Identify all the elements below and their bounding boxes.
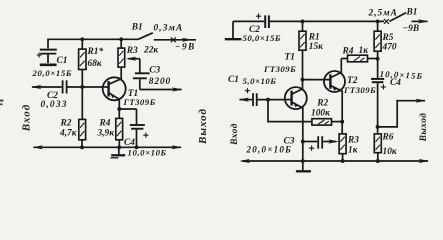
svg-text:С1: С1 [57, 56, 68, 66]
svg-text:ГТ309Б: ГТ309Б [343, 85, 376, 95]
svg-text:С1: С1 [228, 75, 239, 85]
svg-text:4,7к: 4,7к [59, 129, 77, 139]
transistor T2 [324, 59, 345, 122]
wire: right output line with arrow [378, 99, 426, 127]
node: R2 bottom junction [80, 145, 84, 149]
node: R6 bottom junction [376, 159, 380, 163]
svg-text:Вход: Вход [229, 123, 240, 146]
resistor R2 (left base bias) [79, 87, 86, 147]
node: R4-R5 junction [376, 57, 380, 61]
resistor R1 [79, 39, 86, 87]
wire: left circuit bottom common rail with end arrows [33, 145, 183, 149]
resistor R1 (right) [299, 21, 306, 79]
measuring point x on right rail [384, 19, 389, 24]
svg-text:50,0×15Б: 50,0×15Б [243, 33, 281, 43]
svg-text:10к: 10к [383, 147, 397, 157]
node: rail-R3 junction [119, 37, 123, 41]
svg-text:Выход: Выход [418, 113, 429, 143]
node: R2-T2 emitter junction [340, 120, 344, 124]
node: output junction above R6 [376, 125, 380, 129]
svg-text:0,033: 0,033 [41, 100, 68, 110]
wire: right input line with arrow [239, 98, 253, 102]
wire: left output line with arrow [140, 87, 183, 91]
svg-text:В1: В1 [406, 8, 418, 18]
node: emitter junction T1 left [117, 107, 121, 111]
resistor R4 (right, horizontal in T2 collector) [341, 55, 377, 62]
svg-text:R3: R3 [347, 135, 359, 145]
wire: right top rail main segment [270, 20, 384, 22]
capacitor C1 [37, 50, 57, 63]
svg-text:−9В: −9В [175, 43, 196, 53]
wire: left circuit top supply rail [48, 39, 138, 48]
svg-text:100к: 100к [311, 108, 330, 118]
svg-text:−9В: −9В [403, 24, 420, 34]
ground (below C1) [40, 64, 57, 67]
wire: left input line with arrow [31, 85, 62, 89]
node: rail-R1 junction [80, 37, 84, 41]
svg-text:ГТ309Б: ГТ309Б [263, 64, 296, 74]
svg-text:R1*: R1* [87, 46, 104, 57]
node: base junction T1 left [80, 85, 84, 89]
node: T1 collector / T2 base junction [301, 78, 305, 82]
svg-text:5,0×10Б: 5,0×10Б [243, 76, 277, 86]
svg-text:ГТ309Б: ГТ309Б [123, 97, 156, 107]
capacitor C4 (right output coupling) [371, 79, 386, 134]
svg-text:8200: 8200 [149, 77, 171, 87]
svg-text:470: 470 [382, 43, 397, 53]
svg-text:R4: R4 [99, 119, 111, 129]
resistor R3 (left collector load) [118, 39, 125, 70]
node: C4 bottom junction [135, 145, 139, 149]
node: rail-R1 junction (right) [301, 19, 305, 23]
wire: right top rail left segment [233, 20, 264, 22]
svg-text:1к: 1к [359, 46, 369, 56]
wire: right circuit bottom common rail with end arrows [240, 159, 430, 163]
svg-text:R2: R2 [316, 98, 328, 108]
wire: right supply arrow to -9V [412, 19, 429, 23]
resistor R6 [374, 134, 381, 161]
node: R4 bottom junction [117, 145, 121, 149]
svg-text:С4: С4 [390, 78, 401, 88]
svg-text:R2: R2 [60, 119, 72, 129]
node: T1 emitter bottom junction [301, 159, 305, 163]
svg-text:0,3мА: 0,3мА [154, 24, 184, 34]
svg-text:3,9к: 3,9к [97, 129, 115, 139]
svg-text:68к: 68к [88, 59, 102, 69]
svg-text:22к: 22к [143, 46, 158, 56]
svg-text:R3: R3 [126, 46, 138, 56]
svg-text:20,0×10Б: 20,0×10Б [246, 145, 293, 155]
resistor R2 (right feedback, horizontal) [312, 119, 342, 125]
svg-text:15к: 15к [309, 42, 323, 52]
svg-text:1к: 1к [348, 146, 358, 156]
svg-text:В1: В1 [131, 22, 143, 32]
node: T1 base junction (right) [266, 98, 270, 102]
svg-text:С3: С3 [149, 65, 160, 75]
transistor T1 (right) [285, 80, 307, 161]
svg-text:20,0×15Б: 20,0×15Б [32, 68, 73, 78]
transistor T1 (left) [103, 70, 126, 109]
ground (right circuit top-left) [225, 21, 242, 39]
capacitor C3 with tap arrow into R3 [126, 57, 150, 90]
resistor R3 (right, T2 emitter) [339, 122, 346, 161]
node: R3 bottom junction [341, 159, 345, 163]
svg-text:10,0×10Б: 10,0×10Б [128, 147, 167, 157]
capacitor C1 (right input coupling) [245, 88, 285, 106]
svg-text:R6: R6 [382, 132, 394, 142]
switch B1 (left) blade [138, 33, 153, 40]
resistor R4 (left emitter) [116, 109, 123, 147]
svg-text:Выход: Выход [197, 108, 209, 145]
capacitor C2 (right supply filter) [256, 14, 269, 29]
svg-text:Т1: Т1 [285, 53, 295, 63]
resistor R5 [374, 21, 381, 78]
wire: feedback drop from T1 base to R2 [268, 100, 312, 122]
svg-text:Вход: Вход [21, 104, 33, 132]
wire: T1 collector to T2 base [303, 79, 331, 81]
node: C3 junction on T1 emitter line [301, 140, 305, 144]
switch B1 (right) blade [390, 13, 407, 22]
svg-text:R4: R4 [342, 47, 354, 57]
ground (right circuit bottom) [296, 161, 311, 171]
ground (left circuit bottom) [110, 147, 125, 158]
capacitor C3 (right) with tap arrow into R3 [303, 136, 339, 151]
capacitor C4 (left emitter bypass) [119, 109, 148, 147]
svg-text:2,5мА: 2,5мА [368, 8, 398, 18]
svg-text:R5: R5 [382, 33, 394, 43]
capacitor C2 (left input coupling) [63, 80, 103, 93]
wire: left supply lead with measuring point and arrow to -9V [154, 37, 196, 42]
node: rail-R5 junction (right) [376, 19, 380, 23]
